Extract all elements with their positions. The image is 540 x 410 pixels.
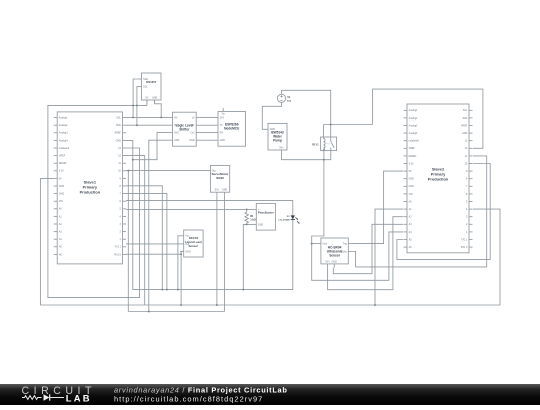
svg-text:GND: GND	[462, 132, 468, 135]
junction	[242, 289, 244, 291]
wire H4 riser	[127, 171, 129, 312]
junction	[330, 124, 332, 126]
svg-text:5V: 5V	[409, 170, 412, 173]
wire sonar 5V to U2	[333, 224, 403, 273]
wire pump to relay NO	[282, 151, 331, 160]
wire U1 row155 drop	[126, 156, 145, 305]
wire row185 drop	[126, 186, 162, 290]
svg-text:Analog4: Analog4	[59, 139, 68, 142]
wire servo gnd drop	[224, 196, 226, 312]
wire shifter GND to ESP GND	[200, 139, 215, 141]
svg-text:arvindnarayan24 / Final Projec: arvindnarayan24 / Final Project CircuitL…	[114, 385, 288, 394]
IC U3 DS1307 RTC	[138, 73, 161, 104]
wire U1 to shifter LV jog	[133, 133, 169, 160]
wire servo 5V drop	[216, 196, 218, 305]
junction	[161, 289, 163, 291]
svg-text:3.3V: 3.3V	[59, 170, 64, 173]
svg-text:Trig: Trig	[343, 243, 348, 246]
junction	[160, 116, 162, 118]
svg-text:TX1 1: TX1 1	[461, 238, 468, 241]
wire U2 serial loop	[397, 164, 490, 260]
svg-text:Analog3: Analog3	[409, 124, 418, 127]
svg-text:SG90: SG90	[216, 176, 224, 180]
svg-text:5V+: 5V+	[325, 260, 330, 263]
junction	[177, 289, 179, 291]
svg-text:RX: RX	[220, 132, 224, 135]
svg-text:3V3: 3V3	[220, 116, 225, 119]
svg-text:Analog4: Analog4	[409, 132, 418, 135]
sensor U7 HC-SR04 ultrasonic	[317, 238, 351, 267]
wire DS1307 GND jog	[155, 100, 162, 117]
op-amp U2 Arduino block Slave2	[404, 104, 473, 253]
svg-text:GND: GND	[222, 189, 228, 192]
svg-text:Production: Production	[80, 189, 101, 194]
svg-text:GND: GND	[220, 139, 226, 142]
junction	[180, 253, 182, 255]
wire buzzer row	[126, 208, 253, 210]
svg-text:RESET: RESET	[59, 162, 68, 165]
svg-text:http://circuitlab.com/c8f8tdq2: http://circuitlab.com/c8f8tdq22rv97	[114, 395, 263, 404]
svg-text:SDA: SDA	[462, 117, 467, 120]
LED D1 LTL-307EE	[278, 215, 299, 223]
svg-text:5V+: 5V+	[215, 189, 220, 192]
svg-text:NodeMCU: NodeMCU	[224, 127, 240, 131]
svg-text:unlabeled: unlabeled	[59, 147, 70, 150]
junction	[374, 304, 376, 306]
wire DS1307 SDA drop	[133, 79, 138, 117]
wire U1 RX drop	[126, 254, 181, 305]
junction	[323, 159, 325, 161]
svg-text:5V: 5V	[145, 96, 148, 99]
IC U4 logic level shifter	[169, 112, 200, 146]
svg-text:LV2: LV2	[191, 132, 196, 135]
junction	[148, 311, 150, 313]
svg-text:RESET: RESET	[409, 155, 418, 158]
svg-text:PiezoBuzzer: PiezoBuzzer	[258, 211, 274, 215]
svg-text:AREF: AREF	[115, 132, 122, 135]
svg-text:HV2: HV2	[174, 132, 179, 135]
svg-text:GND: GND	[59, 193, 65, 196]
svg-text:Analog3: Analog3	[59, 132, 68, 135]
wire SDA row	[126, 124, 169, 126]
wire row193 drop	[126, 194, 167, 290]
svg-text:GND: GND	[116, 139, 122, 142]
junction	[311, 243, 313, 245]
resistor R1 1k	[245, 209, 256, 224]
wire relay top rail	[324, 124, 373, 126]
voltage source V1 5V	[277, 94, 291, 103]
svg-text:LV: LV	[192, 116, 195, 119]
svg-text:Analog1: Analog1	[59, 117, 68, 120]
svg-text:VREF: VREF	[59, 155, 66, 158]
svg-text:GND: GND	[152, 96, 158, 99]
op-amp U1 Arduino block Slave1	[54, 112, 126, 264]
junction	[136, 124, 138, 126]
module U5 ESP8266 NodeMCU	[215, 108, 246, 146]
wire 5V loop B bottom bus H3	[40, 178, 500, 305]
svg-text:Sensor: Sensor	[188, 244, 199, 248]
svg-text:unlabeled: unlabeled	[409, 140, 420, 143]
junction	[127, 170, 129, 172]
svg-text:Analog1: Analog1	[409, 109, 418, 112]
wire GND bus H1	[126, 140, 293, 289]
wire shifter LV2 to ESP RX	[200, 132, 215, 134]
svg-text:TX: TX	[220, 124, 223, 127]
wire relay coil to U2	[312, 151, 403, 281]
wire buzzer gnd drop	[243, 224, 253, 289]
wire servo signal row	[126, 170, 207, 172]
wire U1 TX to level sensor	[126, 243, 180, 245]
svg-text:5V: 5V	[59, 177, 62, 180]
svg-text:RX1 0: RX1 0	[461, 246, 468, 249]
svg-text:1 kΩ: 1 kΩ	[250, 218, 255, 221]
svg-text:GND: GND	[258, 223, 264, 226]
wire sonar gnd to U2	[328, 217, 403, 290]
svg-text:VIN: VIN	[409, 193, 413, 196]
svg-text:VREF: VREF	[409, 147, 416, 150]
svg-text:SCL: SCL	[116, 117, 121, 120]
svg-text:SCL: SCL	[463, 109, 468, 112]
junction	[132, 159, 134, 161]
wire top right loop to U2	[373, 89, 483, 148]
svg-text:Analog2: Analog2	[59, 124, 68, 127]
wire U2 row209 drop	[375, 209, 403, 305]
CircuitLab logo	[22, 385, 96, 403]
svg-text:5V+: 5V+	[279, 146, 284, 149]
svg-text:GND: GND	[174, 139, 180, 142]
wire DS1307 SCL drop	[137, 87, 138, 126]
wire shifter LV to ESP 3V3	[200, 116, 215, 118]
wire level sensor gnd stub	[179, 252, 182, 255]
relay RLY1	[312, 137, 336, 151]
junction	[132, 104, 134, 106]
svg-text:HV: HV	[174, 116, 178, 119]
footer credit text	[114, 385, 288, 403]
wire shifter GND drop	[149, 140, 169, 311]
wire net 5V loop A (DS1307 5V to U1 pin13)	[48, 100, 147, 298]
junction	[166, 289, 168, 291]
junction	[216, 304, 218, 306]
svg-text:SDA: SDA	[116, 124, 121, 127]
junction	[136, 104, 138, 106]
junction	[246, 223, 248, 225]
svg-text:TX1 1: TX1 1	[115, 246, 122, 249]
wire V1 plus rail	[282, 90, 331, 137]
svg-text:3.3V: 3.3V	[409, 162, 414, 165]
motor M1 water pump	[265, 123, 288, 153]
junction	[246, 208, 248, 210]
svg-text:GND: GND	[409, 178, 415, 181]
wire sonar echo loop	[352, 156, 487, 267]
svg-text:VIN: VIN	[59, 200, 63, 203]
svg-text:RX1 0: RX1 0	[114, 253, 121, 256]
junction	[180, 304, 182, 306]
svg-text:AREF: AREF	[461, 124, 468, 127]
junction	[132, 116, 134, 118]
wire bus H4	[128, 311, 224, 313]
svg-text:GND: GND	[59, 185, 65, 188]
wire sonar gnd stub	[312, 243, 318, 245]
wire LED anode bus	[126, 201, 293, 216]
svg-text:RLY1: RLY1	[312, 144, 319, 147]
servo M2 servomotor SG90	[207, 165, 230, 195]
buzzer BZ1 piezo	[253, 203, 276, 230]
wire level sensor vcc drop	[178, 236, 180, 290]
svg-text:GND: GND	[332, 260, 338, 263]
svg-text:5 V: 5 V	[287, 100, 291, 103]
svg-text:Analog2: Analog2	[409, 117, 418, 120]
svg-text:GND: GND	[185, 250, 191, 253]
svg-text:DS1307: DS1307	[146, 80, 157, 84]
svg-text:Shifter: Shifter	[179, 128, 190, 132]
svg-text:SCL: SCL	[143, 85, 148, 88]
svg-text:GND: GND	[189, 139, 195, 142]
wire SCL row	[126, 116, 169, 118]
svg-text:Production: Production	[428, 176, 449, 181]
svg-text:Pump: Pump	[273, 139, 282, 143]
svg-text:LAB: LAB	[66, 392, 92, 403]
sensor U6 liquid level sensor	[180, 230, 203, 257]
wire shifter LV1 to ESP TX	[200, 124, 215, 126]
svg-text:Sensor: Sensor	[329, 254, 341, 258]
svg-text:GND: GND	[409, 185, 415, 188]
wire relay coil feed	[323, 125, 325, 138]
wire sonar trig to U2	[352, 171, 403, 244]
wire V1 minus to pump	[262, 102, 281, 129]
svg-text:LTL-307EE: LTL-307EE	[278, 220, 290, 222]
